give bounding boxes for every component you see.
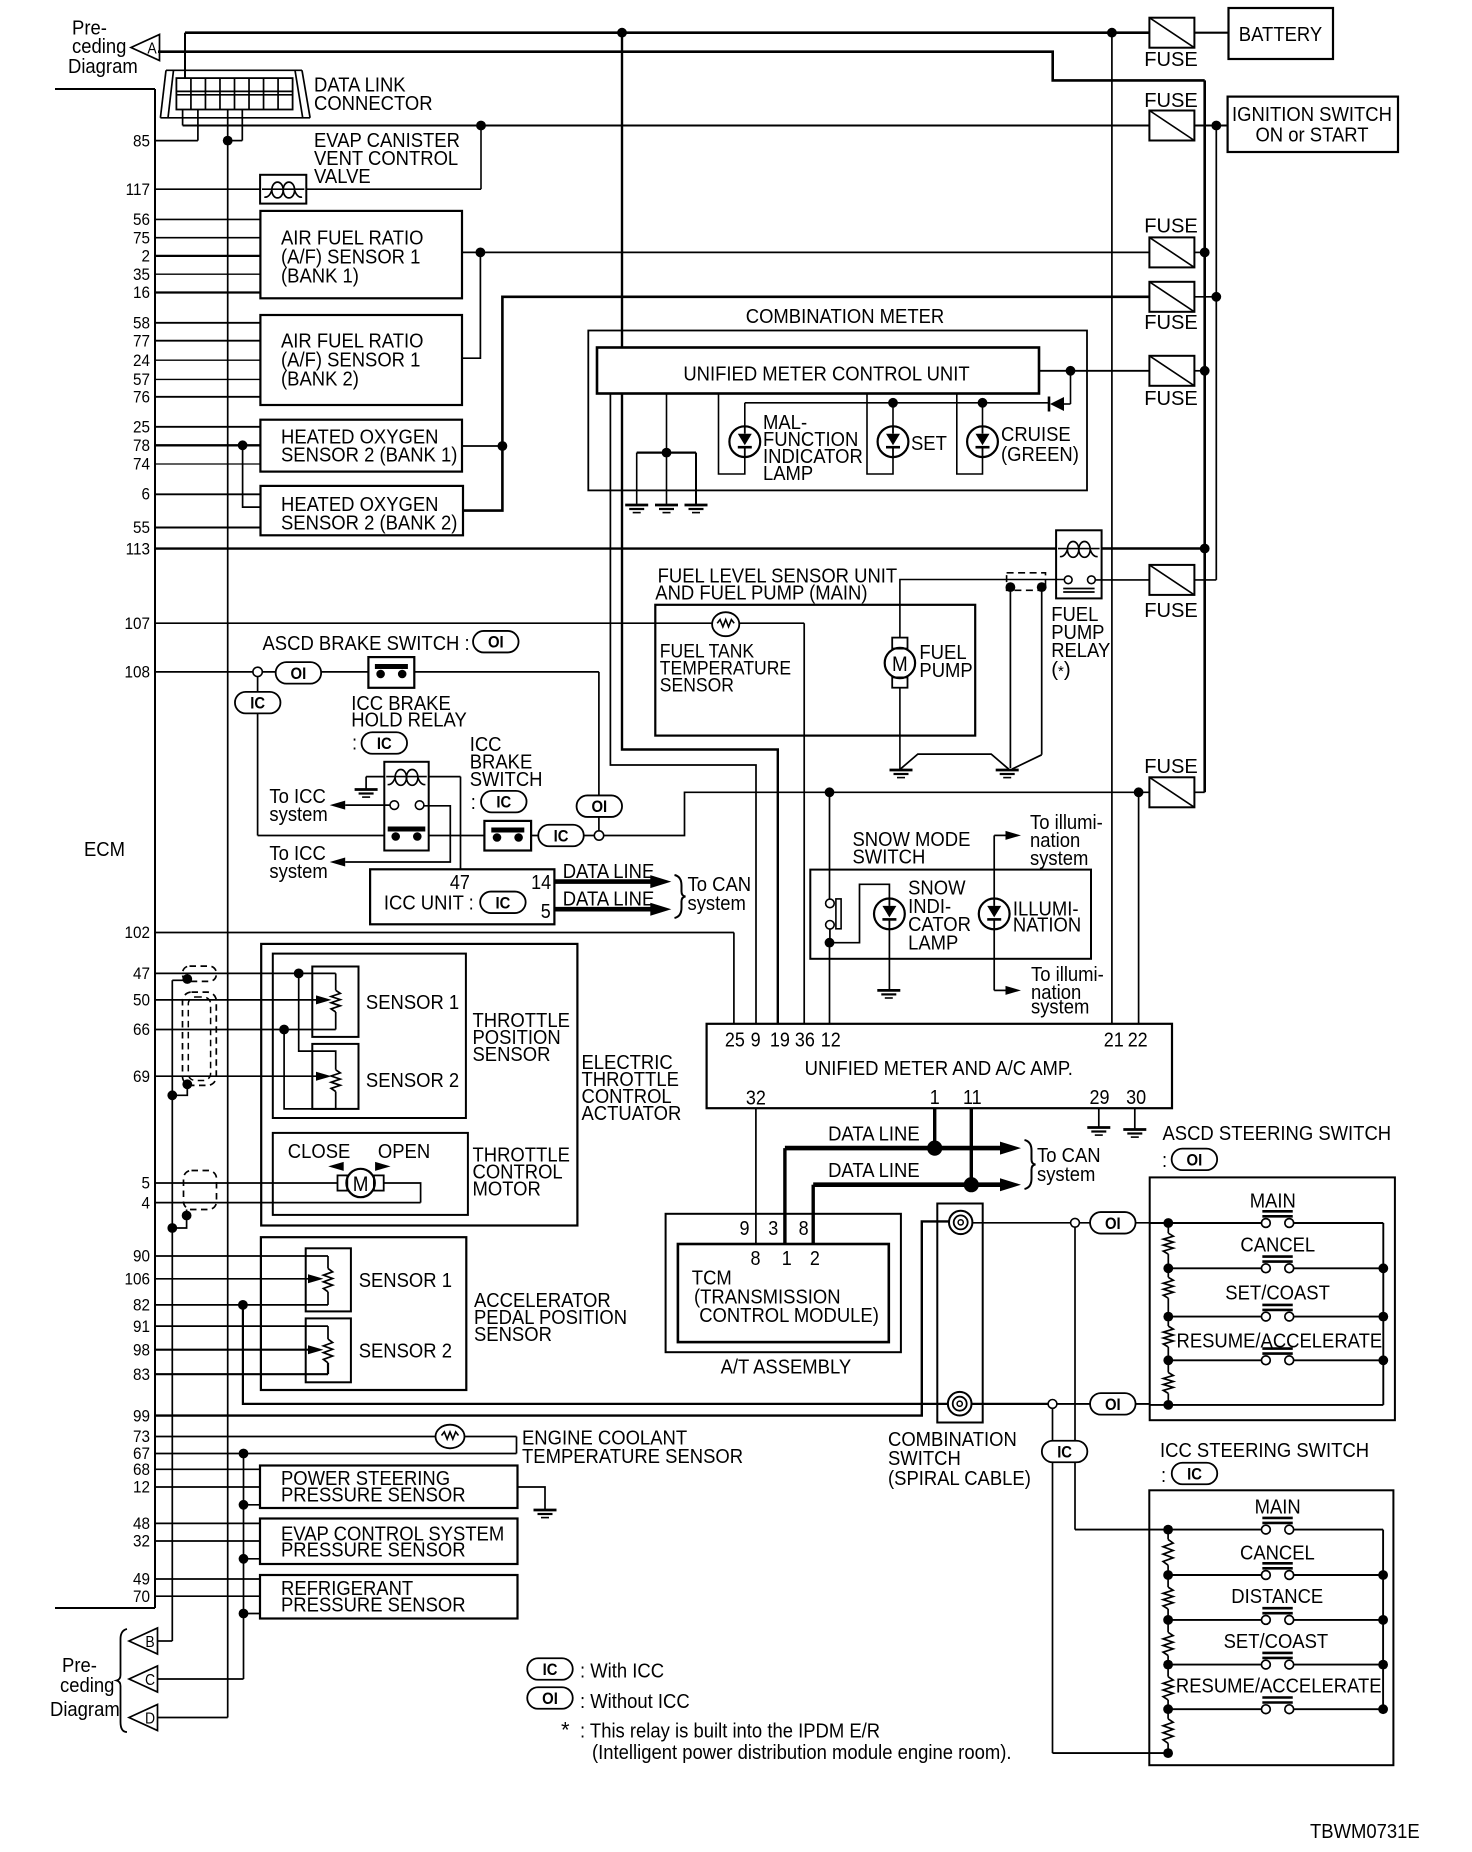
node shield drain bus junction 2 [167,1223,177,1233]
node data line junction 1 [927,1141,942,1156]
svg-text:102: 102 [125,923,151,942]
ASCD switch right vertical [1378,1223,1388,1405]
wire ECM 67 [155,1437,517,1454]
snow indicator lamp label [908,877,971,955]
OPEN label [378,1140,430,1163]
wire spiral top branch to ICC switch [1075,1227,1168,1529]
spiral cable box [937,1204,982,1423]
ECM boundary [55,89,155,1608]
svg-text:16: 16 [133,283,150,302]
fuse F4 [1144,282,1198,334]
svg-text:49: 49 [133,1570,150,1589]
node APP ground junction [238,1300,248,1310]
ground (fuel pump 1) [890,770,913,778]
data line wire 1 [785,1142,1021,1155]
node TPS ground junction [279,1025,289,1035]
IC oval (ICC unit) [480,892,526,914]
svg-text:48: 48 [133,1514,150,1533]
to CAN system label (TCM) [1037,1144,1101,1186]
UMA label [805,1057,1073,1080]
fuel pump label [919,641,972,682]
svg-text:IC: IC [250,695,265,713]
svg-text:: This relay is built into the: : This relay is built into the IPDM E/R [580,1720,880,1743]
ASCD switch rows [1168,1211,1383,1405]
wire ECM 98 (wiper) [155,1345,324,1354]
wire triangle C [158,1678,244,1680]
svg-text:PUMP: PUMP [919,659,972,682]
wire ECM 47 [155,973,336,990]
wire DLC bus down to triangle D [227,110,229,1718]
svg-text:CONTROL MODULE): CONTROL MODULE) [699,1304,879,1327]
svg-text:OI: OI [542,1690,558,1708]
node shield drain 2 [182,1079,192,1089]
OI oval (ASCD switch wire) [1090,1212,1136,1234]
svg-text:70: 70 [133,1587,150,1606]
CLOSE label [288,1140,351,1163]
svg-text:IC: IC [1187,1466,1202,1484]
wire ground to relay coil [366,776,384,778]
wire ECM 107 to fuel tank temperature sensor [155,622,804,624]
svg-text:CONNECTOR: CONNECTOR [314,92,433,115]
wire HO2S bank1 heater [462,441,507,451]
OI oval (ASCD brake switch) [473,631,519,653]
wire ECM 75 [155,237,260,239]
wire TCM pin 2 data line [812,1185,815,1244]
UMA pin 32 label [746,1088,766,1110]
wire 108 branch to relay contacts [258,835,385,837]
svg-text:74: 74 [133,455,150,474]
wire ECM 50 (wiper) [155,995,332,1004]
svg-text:8: 8 [751,1248,761,1270]
wire ECM 57 [155,378,260,380]
wire snow switch to indicator lamp [830,884,890,942]
malfunction indicator lamp label [763,411,863,485]
combination switch label [888,1428,1031,1490]
malfunction indicator lamp [729,426,760,457]
A/T pin 9 label [740,1218,750,1240]
snow mode switch box [810,870,1091,959]
svg-text:DATA LINE: DATA LINE [828,1123,920,1146]
electric throttle control actuator box [261,944,577,1226]
wire snow mode switch feed [829,792,831,898]
svg-text:OI: OI [591,798,607,816]
wire ECM 55 [155,527,261,529]
resistor (ICC 4) [1163,1677,1173,1700]
OI oval (below 108 circle) [577,795,623,817]
svg-text:19: 19 [770,1030,790,1052]
svg-text:FUSE: FUSE [1144,387,1198,410]
wire A/F bank1 supply to fuse F3 [462,251,1150,253]
wire snow switch to UMA pin 12 [829,943,831,1024]
wire UMA pin 1 data line [933,1108,936,1148]
wire ECM 66 [155,1012,336,1030]
svg-text:IC: IC [496,794,511,812]
indicator lamp SET [878,426,909,457]
UMA pin 22 label [1128,1030,1148,1052]
svg-text:MAIN: MAIN [1250,1190,1296,1213]
EVAP canister vent control valve (coil) [260,175,306,204]
svg-text:C: C [145,1672,155,1689]
wire fuel tank temp sensor to UMA pin 36 [803,623,805,1024]
svg-text:DATA LINE: DATA LINE [563,888,655,911]
wire heater supply from fuse F4 [463,297,1150,511]
accelerator pedal position sensor box [261,1237,466,1390]
open arrow [375,1162,391,1171]
svg-text:IC: IC [543,1661,558,1679]
svg-text:SENSOR 2 (BANK 1): SENSOR 2 (BANK 1) [281,444,457,467]
svg-text:36: 36 [795,1030,815,1052]
wire ECM 73 to ECT sensor [155,1436,437,1438]
throttle control motor [338,1169,384,1197]
svg-text:(GREEN): (GREEN) [1001,443,1079,466]
wire A/F bank2 supply branch [462,252,480,358]
node 67 branch [239,1449,249,1459]
svg-text:M: M [892,653,908,676]
node battery/DLC junction [617,28,627,38]
svg-text:SET: SET [911,432,947,455]
TPS sensor 2 label [366,1069,459,1092]
svg-text:ICC STEERING SWITCH: ICC STEERING SWITCH [1160,1439,1369,1462]
svg-text:PRESSURE SENSOR: PRESSURE SENSOR [281,1484,466,1507]
engine coolant temperature sensor label [522,1427,743,1469]
wire ground bus C [243,1454,245,1680]
node UMA pin 22 junction [1134,787,1144,797]
svg-text:4: 4 [142,1193,151,1212]
TPS sensor 1 box [312,967,358,1037]
svg-text::: : [1162,1149,1167,1172]
wire ICC brake switch to open circle [531,835,594,837]
svg-text:14: 14 [531,872,551,894]
svg-text:2: 2 [142,247,151,266]
svg-text:ACTUATOR: ACTUATOR [582,1102,682,1125]
TCM pin 1 label [782,1248,792,1270]
svg-text:83: 83 [133,1365,150,1384]
svg-text:system: system [269,860,327,883]
svg-text:FUSE: FUSE [1144,48,1198,71]
fuse F1 (battery) [1144,18,1198,71]
svg-text:HOLD RELAY: HOLD RELAY [351,709,467,732]
resistor (ASCD 4) [1163,1373,1173,1394]
air fuel ratio sensor 1 bank 1 label [281,227,424,288]
wire bus battery A (right) [1203,80,1206,792]
connector triangle D [129,1705,158,1731]
wire triangle D [158,1717,228,1719]
svg-text:68: 68 [133,1460,150,1479]
svg-text:ON or START: ON or START [1255,124,1369,147]
wire relay contact to ICC system 2 [330,806,451,867]
svg-text:system: system [1031,996,1089,1019]
wire UMA pin 29 ground [1098,1108,1100,1126]
APP sensor 1 label [359,1269,452,1292]
wire DLC pin to ECM 85 [155,110,198,141]
preceding diagram label (top) [68,17,138,79]
UMA pin 29 label [1090,1087,1110,1109]
wire ECM 56 [155,218,260,220]
svg-text:COMBINATION METER: COMBINATION METER [746,305,945,328]
fuse F6 [1144,565,1198,622]
wire 108 to ASCD brake switch [262,671,368,673]
wire relay coil to bus A [1102,544,1210,554]
fuel pump relay label [1051,603,1110,681]
resistor (ICC 1) [1163,1539,1173,1565]
data link connector label [314,74,433,115]
snow mode switch contacts [826,899,842,943]
UMA pin 1 label [930,1087,940,1109]
wire ECM 32 [155,1540,260,1542]
ground (UMA 29) [1087,1128,1110,1136]
data line label 2 [828,1159,920,1182]
svg-text:OI: OI [488,634,504,652]
wire brake line to fuse F7 [604,792,1150,835]
svg-text:SENSOR: SENSOR [473,1043,551,1066]
wire ECM 25 [155,426,260,428]
heated oxygen sensor 2 bank 2 label [281,493,457,535]
data line label 1 [828,1123,920,1146]
legend with ICC [580,1660,664,1683]
svg-text:113: 113 [126,539,150,558]
A/T assembly box [666,1214,901,1352]
data line wire 2 [813,1178,1021,1191]
wire battery bus to UMCU / UMA pin 19 [622,33,778,1024]
svg-text:A: A [147,41,157,58]
ground (combination meter 2) [655,505,678,513]
wire ECM 70 [155,1595,260,1597]
combination meter box [588,331,1087,491]
resistor (ASCD 2) [1163,1277,1173,1298]
preceding diagram label (bottom) [50,1654,120,1721]
snow indicator lamp [874,899,905,930]
svg-text:SENSOR 1: SENSOR 1 [366,991,459,1014]
wire spiral bottom to ASCD switch [1057,1403,1150,1405]
connector triangle B [129,1628,158,1654]
ground (snow lamp) [877,990,900,998]
ECM pin number labels [125,131,151,1606]
svg-text:CANCEL: CANCEL [1240,1542,1315,1565]
svg-text:PRESSURE SENSOR: PRESSURE SENSOR [281,1593,466,1616]
wire ASCD spine segments [1167,1223,1169,1405]
brace to CAN (TCM) [1025,1140,1036,1189]
wire SET lamp anode [888,398,898,426]
svg-text:SET/COAST: SET/COAST [1224,1630,1329,1653]
wire DLC pin to EVAP line [182,110,184,126]
to CAN system label (ICC) [688,873,752,915]
fuse F5 [1144,356,1198,410]
wire TPS supply branch to sensor 2 [299,973,336,1069]
resistor (ICC 3) [1163,1632,1173,1655]
svg-text:system: system [1037,1163,1095,1186]
svg-text:A/T ASSEMBLY: A/T ASSEMBLY [721,1356,852,1379]
svg-text:(BANK 2): (BANK 2) [281,368,359,391]
ground (combination meter 1) [625,505,648,513]
wire connector diag to ground 2 [1012,587,1042,769]
node EVAP valve junction [476,121,486,131]
wire bus battery to UMA pin 21 [1111,33,1113,1024]
IC oval (ICC steering switch) [1172,1463,1218,1485]
wire PS sensor to ground [518,1487,546,1510]
unified meter control unit box [597,348,1039,394]
svg-text:85: 85 [133,131,150,150]
ASCD brake switch [368,657,414,688]
svg-text:system: system [688,892,746,915]
to ICC system label 1 [269,785,327,826]
node shield drain 1 [182,974,192,984]
wire ECM 74 [155,463,260,465]
wire ECM 24 [155,359,260,361]
svg-text:FUSE: FUSE [1144,599,1198,622]
svg-text:56: 56 [133,210,150,229]
wire UMCU to fuse F5 [1039,366,1150,376]
throttle control motor box [273,1133,468,1215]
ICC brake switch label [470,733,543,814]
A/T assembly label [721,1356,852,1379]
svg-text:OPEN: OPEN [378,1140,430,1163]
ASCD brake switch label [263,632,470,655]
svg-text:FUSE: FUSE [1144,311,1198,334]
svg-text:CLOSE: CLOSE [288,1140,351,1163]
svg-text:32: 32 [133,1532,150,1551]
wire fuse F1 to battery box [1195,32,1229,34]
wire EVAP sensor ground [239,1554,260,1564]
resistor (TPS sensor 2) [331,1070,340,1092]
ICC unit pin 5 label [541,901,551,923]
wire EVAP valve to fused line [306,126,481,190]
TCM box [678,1244,889,1342]
wire fuse F6 to ignition bus [1195,579,1217,581]
connector triangle C [129,1666,158,1692]
svg-text:OI: OI [1187,1151,1203,1169]
fuel level sensor unit box [655,605,975,736]
resistor (ICC 5) [1163,1719,1173,1744]
node fuse F4 to ignition bus [1195,292,1222,302]
wire ECM 106 (wiper) [155,1274,324,1283]
heated oxygen sensor 2 bank 2 box [261,486,464,535]
node open circle (108) [253,667,262,676]
svg-text:29: 29 [1090,1087,1110,1109]
wire fuel pump ground 1 [899,688,901,770]
shield connector (TPS signals) [183,992,217,1085]
svg-text:3: 3 [768,1218,778,1240]
svg-text:6: 6 [142,485,151,504]
unified meter control unit label [683,363,970,386]
brace to CAN (ICC) [675,875,686,918]
wire UMCU ground manifold [637,394,696,504]
preceding diagram brace [117,1629,127,1732]
IC oval (108 branch) [235,677,281,836]
to illumination system label (bottom) [1031,963,1104,1019]
svg-text:98: 98 [133,1340,150,1359]
wire ECM 49 [155,1578,260,1580]
wire ECM 69 (wiper) [155,1072,332,1081]
svg-text:30: 30 [1126,1087,1146,1109]
svg-text:D: D [145,1711,155,1728]
node fuel pump connector right [1037,582,1047,592]
svg-text:LAMP: LAMP [908,932,958,955]
wire to UMA pin 22 [1138,792,1140,1024]
svg-text:50: 50 [133,991,150,1010]
APP sensor 1 box [306,1248,351,1311]
svg-text:system: system [269,803,327,826]
svg-text:IC: IC [554,828,569,846]
svg-text:57: 57 [133,370,150,389]
svg-text:8: 8 [799,1218,809,1240]
resistor (APP sensor 2) [323,1339,332,1363]
wire ECM 16 [155,291,260,293]
node open circle (spiral bottom) [1048,1400,1057,1409]
wire ECM 78 [155,444,260,446]
node A/F supply junction [476,248,486,258]
svg-text:OI: OI [291,665,307,683]
svg-text:(BANK 1): (BANK 1) [281,265,359,288]
wire UMCU to CRUISE lamp [957,394,983,475]
wire PS sensor ground [239,1500,260,1510]
node fuel pump connector left [1006,582,1016,592]
OI oval (ASCD bottom wire) [1090,1393,1136,1415]
svg-text:: Without ICC: : Without ICC [580,1690,690,1713]
wire refrigerant sensor ground [239,1609,260,1619]
svg-text:IC: IC [496,894,511,912]
svg-text:FUSE: FUSE [1144,89,1198,112]
node ignition bus junction [1211,121,1221,131]
svg-text:*: * [561,1718,570,1743]
refrigerant pressure sensor label [281,1577,466,1616]
UMA pin 19 label [770,1030,790,1052]
wire UMA pin 32 to TCM [755,1108,757,1244]
wire UMCU to UMA pin 9 [610,394,756,1024]
CRUISE label [1001,423,1079,466]
svg-text:SWITCH: SWITCH [470,768,543,791]
svg-text:SENSOR: SENSOR [660,675,734,697]
ASCD switch left spine [1150,1218,1174,1410]
svg-text:32: 32 [746,1088,766,1110]
wire shield drain (left bus) [172,973,187,1641]
svg-text:: With ICC: : With ICC [580,1660,664,1683]
A/T pin 8 label [799,1218,809,1240]
svg-text:TEMPERATURE SENSOR: TEMPERATURE SENSOR [522,1445,743,1468]
wire fuel pump to relay contact [900,580,1064,638]
power steering pressure sensor box [260,1466,518,1509]
throttle position sensor label [473,1009,570,1066]
node data line junction 2 [964,1177,979,1192]
svg-text:12: 12 [821,1030,841,1052]
svg-text:MOTOR: MOTOR [473,1178,541,1201]
air fuel ratio sensor 1 bank 1 box [260,211,462,298]
svg-text:SENSOR: SENSOR [474,1323,552,1346]
ICC unit pin 14 label [531,872,551,894]
node shield drain bus junction [167,1090,177,1100]
ICC switch right vertical [1378,1530,1388,1715]
svg-text:UNIFIED METER AND A/C AMP.: UNIFIED METER AND A/C AMP. [805,1057,1073,1080]
air fuel ratio sensor 1 bank 2 label [281,330,424,391]
IC oval (ICC brake switch) [481,791,527,813]
ASCD steering switch label [1162,1122,1391,1172]
svg-text:VALVE: VALVE [314,165,371,188]
wire bus ignition (right) [1215,126,1217,580]
to illumination system label (top) [1030,811,1103,870]
svg-text:106: 106 [125,1270,151,1289]
heated oxygen sensor 2 bank 1 label [281,426,457,467]
svg-text:58: 58 [133,314,150,333]
node fuse F3 to bus A [1195,248,1210,258]
svg-text:M: M [353,1173,369,1196]
svg-text:IC: IC [1057,1444,1072,1462]
wire ECM 12 [155,1486,260,1488]
svg-text:FUSE: FUSE [1144,755,1198,778]
svg-text:1: 1 [782,1248,792,1270]
wire CRUISE lamp anode [978,398,988,426]
wire DLC pin jog [228,110,243,141]
svg-text::: : [1161,1464,1166,1487]
ignition switch box [1228,97,1398,152]
